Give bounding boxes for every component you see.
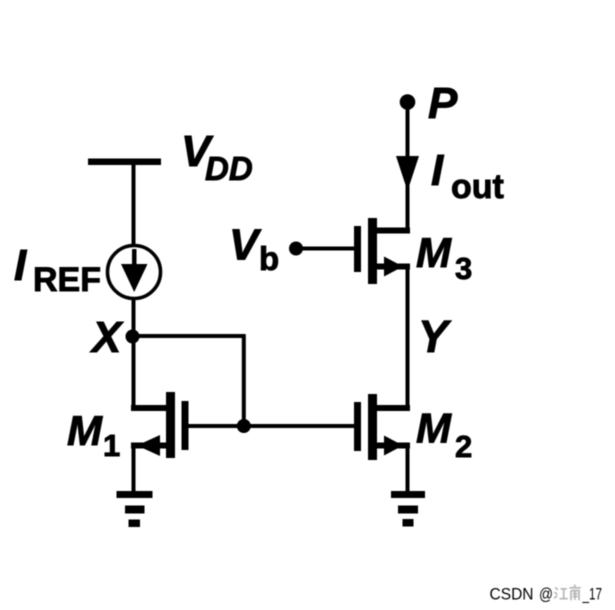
transistor M3 channel bar: [368, 218, 377, 284]
wire down to gate junction: [242, 335, 246, 428]
Iout current arrow: [396, 156, 419, 191]
wire Vb to M3 gate: [296, 247, 355, 251]
node X dot: [126, 330, 140, 344]
svg-text:M: M: [416, 405, 452, 452]
label IREF: [14, 241, 101, 299]
CJK glyph nan: [569, 585, 580, 601]
gate wire M1 to M2: [188, 424, 355, 428]
svg-text:I: I: [431, 146, 444, 195]
wire Y net M3 source to M2 drain: [406, 264, 410, 412]
label M2: [416, 405, 472, 465]
label Vb: [229, 221, 279, 278]
svg-text:X: X: [89, 313, 124, 362]
svg-text:out: out: [451, 168, 504, 206]
wire X to right: [132, 334, 246, 338]
svg-text:V: V: [229, 221, 262, 270]
svg-text:_17: _17: [582, 585, 602, 604]
svg-text:P: P: [428, 79, 458, 128]
svg-text:@: @: [539, 585, 553, 604]
transistor M1 channel bar: [166, 392, 175, 458]
transistor M3 source lead: [373, 264, 410, 270]
wire M1 source to ground: [132, 446, 136, 493]
watermark CSDN: [490, 585, 603, 604]
svg-text:I: I: [14, 241, 27, 290]
svg-text:REF: REF: [33, 261, 101, 299]
wire P to M3 drain: [406, 102, 410, 234]
svg-text:M: M: [67, 407, 103, 454]
CJK glyph jiang: [554, 588, 558, 599]
transistor M2 drain lead: [373, 405, 410, 411]
ground (right): [391, 491, 425, 527]
transistor M3 source arrow: [384, 257, 403, 277]
svg-text:b: b: [259, 240, 279, 277]
transistor M2 source arrow: [384, 436, 403, 456]
svg-text:1: 1: [103, 428, 120, 463]
label M1: [67, 407, 120, 463]
label M3: [416, 229, 472, 286]
transistor M3 drain lead: [373, 228, 410, 234]
wire VDD to IREF: [132, 165, 136, 247]
Vb terminal dot: [289, 242, 303, 256]
transistor M3 gate bar: [354, 226, 361, 272]
transistor M1 source arrow: [137, 435, 160, 456]
svg-text:Y: Y: [418, 311, 452, 362]
ground (left): [117, 491, 153, 527]
transistor M2 gate bar: [354, 402, 361, 451]
label Iout: [431, 146, 504, 206]
transistor M1 drain lead: [131, 405, 170, 411]
wire IREF to X to M1 drain: [132, 298, 136, 408]
svg-text:DD: DD: [205, 150, 253, 187]
label VDD: [181, 127, 253, 187]
transistor M1 gate bar: [182, 401, 189, 450]
transistor M2 source lead: [373, 443, 410, 449]
svg-text:CSDN: CSDN: [490, 585, 534, 604]
transistor M1 source lead: [131, 443, 170, 449]
node P dot: [400, 94, 416, 110]
transistor M2 channel bar: [368, 394, 377, 460]
svg-text:2: 2: [455, 429, 472, 464]
svg-text:M: M: [416, 229, 452, 276]
current source IREF arrow: [121, 249, 148, 292]
svg-text:3: 3: [455, 251, 472, 286]
junction node dot: [237, 419, 251, 433]
supply rail VDD bar: [88, 159, 161, 166]
current source IREF circle: [108, 246, 161, 299]
wire M2 source to ground: [406, 446, 410, 493]
